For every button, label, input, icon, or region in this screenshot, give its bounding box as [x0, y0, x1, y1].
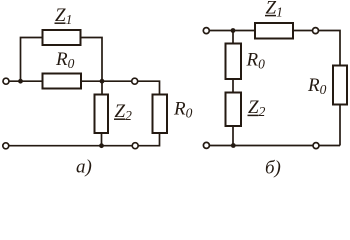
label Z1 (b) — [265, 0, 283, 20]
resistor R0 load box vertical (a) — [153, 95, 168, 134]
resistor Z1 box (b) — [255, 23, 293, 39]
wire: left vertical riser (a) — [21, 38, 43, 82]
node junction top rail (b) — [231, 28, 236, 33]
resistor R0 box horizontal (a) — [43, 74, 82, 89]
svg-text:б): б) — [265, 158, 281, 179]
terminal P2b-bottom — [313, 143, 319, 149]
resistor R0 box vertical upper (b) — [226, 44, 242, 80]
terminal P1b top (circuit b) — [203, 28, 209, 34]
wire: Z2 bottom lead (b) — [232, 126, 234, 146]
wire: Z1 right lead to right riser (a) — [81, 38, 103, 95]
resistor Z1 box (a) — [43, 30, 81, 45]
resistor R0 load box vertical (b) — [333, 66, 347, 105]
wire: bottom right to load bottom (a) — [138, 133, 159, 146]
wire: bottom right corner (b) — [319, 145, 340, 147]
terminal P1b-bottom (a, bottom-left) — [3, 143, 9, 149]
terminal P1a (circuit a, left-mid) — [3, 78, 9, 84]
wire: load bottom lead (b) — [339, 105, 341, 146]
wire: port 2 top to load (a) — [138, 81, 160, 94]
terminal P2a-top — [132, 78, 138, 84]
label Z2 (a) — [114, 101, 132, 123]
wire: bottom rail (b) — [209, 145, 313, 147]
wire: port2 top to load riser (b) — [318, 31, 340, 66]
wire: top rail left (b) — [209, 30, 255, 32]
wire: between R0 and Z2 (b) — [232, 79, 234, 93]
svg-text:а): а) — [76, 157, 92, 178]
wire: bottom rail (a) — [9, 145, 133, 147]
wire: mid rail to port 2 top (a) — [81, 80, 132, 82]
node junction mid rail right (a) — [100, 79, 105, 84]
terminal P2b-top — [313, 28, 319, 34]
impedance Z2 box vertical (b) — [226, 93, 242, 127]
label Z2 (b) — [248, 97, 266, 119]
wire: top rail right (b) — [293, 30, 313, 32]
impedance Z2 box vertical (a) — [95, 95, 109, 134]
terminal P2a-bottom — [132, 143, 138, 149]
node junction bottom rail (b) — [231, 143, 236, 148]
wire: Z2 bottom lead (a) — [101, 133, 103, 146]
label Z1 (a) — [55, 5, 73, 27]
node junction bottom rail (a) — [99, 143, 104, 148]
node junction at left vertical / mid rail (a) — [18, 79, 23, 84]
terminal P1b-bottom (b) — [203, 142, 209, 148]
wire: mid rail left (a) — [9, 80, 43, 82]
wire: shunt branch top lead (b) — [232, 31, 234, 44]
